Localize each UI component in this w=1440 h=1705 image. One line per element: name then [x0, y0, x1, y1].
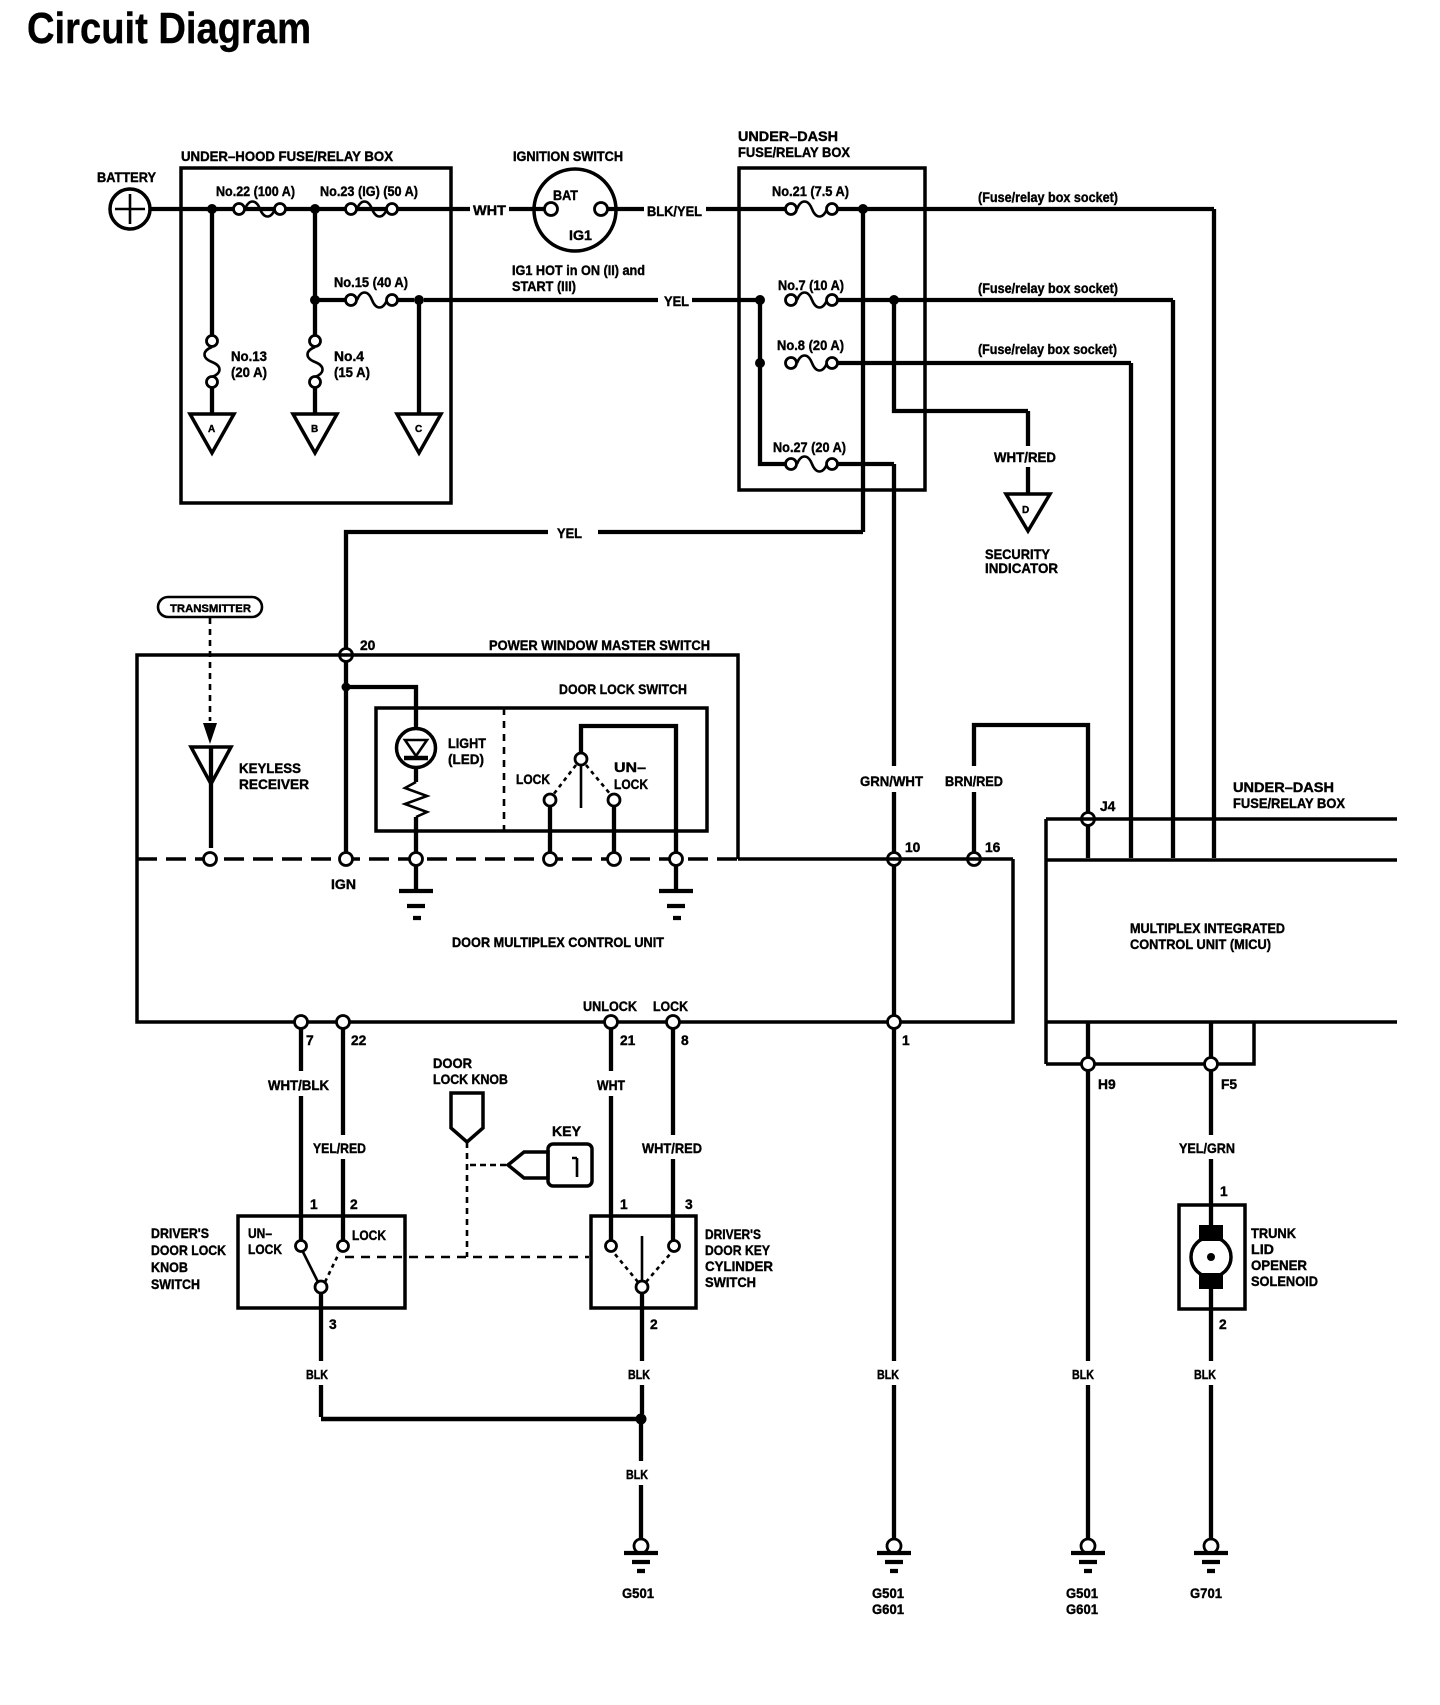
node pin 8 lock: [667, 1016, 680, 1029]
svg-text:BLK: BLK: [306, 1368, 328, 1382]
fuse No.8 (20 A): [755, 338, 844, 371]
knob switch unlock contact: [296, 1241, 307, 1252]
svg-text:J4: J4: [1100, 799, 1116, 814]
ground G501 G601 (pin1 column): [872, 1539, 911, 1617]
fuse No.13 (20 A) wire fuse: [205, 336, 268, 388]
svg-text:KEY: KEY: [552, 1124, 581, 1139]
wire pin 21 down (WHT): [609, 1029, 613, 1216]
svg-text:G501: G501: [622, 1586, 654, 1601]
wire: WHT/RED branch down and right: [894, 300, 1028, 411]
wire knob switch pin 3: [319, 1293, 323, 1308]
svg-text:No.4: No.4: [334, 349, 364, 364]
svg-text:No.13: No.13: [231, 349, 267, 364]
svg-text:DRIVER'S: DRIVER'S: [705, 1227, 761, 1242]
svg-text:BLK: BLK: [1072, 1368, 1094, 1382]
node switch bracket return: [670, 853, 683, 866]
wire: junction B down to fuse No.4: [313, 209, 317, 336]
svg-text:DOOR KEY: DOOR KEY: [705, 1243, 770, 1258]
svg-text:BRN/RED: BRN/RED: [945, 774, 1003, 789]
under-dash fuse/relay box (left): [739, 168, 925, 490]
svg-text:G701: G701: [1190, 1586, 1222, 1601]
svg-text:KEYLESS: KEYLESS: [239, 761, 301, 776]
UN-LOCK contact: [608, 794, 620, 806]
wire: No.7 to No.8 to No.27 left rail: [760, 300, 786, 464]
svg-text:No.15 (40 A): No.15 (40 A): [334, 275, 408, 290]
fuse No.21 (7.5 A): [772, 184, 849, 217]
solid DMCU top segment: [738, 857, 1013, 861]
fuse No.23 (IG) (50 A): [320, 184, 418, 217]
svg-text:GRN/WHT: GRN/WHT: [860, 774, 924, 789]
key cylinder contact 3: [669, 1241, 680, 1252]
wire pin 3 down (BLK): [319, 1308, 323, 1417]
wire battery to under-hood box (main bus): [150, 207, 544, 211]
knob switch arm (closed to unlock): [303, 1252, 318, 1282]
svg-text:SWITCH: SWITCH: [705, 1275, 756, 1290]
wire No.8 output to socket line 3 corner: [838, 361, 1131, 365]
dashed divider in door lock switch: [503, 708, 506, 831]
svg-text:LIGHT: LIGHT: [448, 736, 487, 751]
svg-text:SWITCH: SWITCH: [151, 1277, 200, 1292]
svg-text:DOOR LOCK: DOOR LOCK: [151, 1243, 226, 1258]
svg-text:No.23 (IG) (50 A): No.23 (IG) (50 A): [320, 184, 418, 199]
connector triangle C: [397, 414, 441, 453]
trunk lid opener solenoid: [1179, 1205, 1318, 1309]
svg-text:WHT/RED: WHT/RED: [642, 1141, 702, 1156]
svg-text:No.27 (20 A): No.27 (20 A): [773, 440, 846, 455]
svg-text:KNOB: KNOB: [151, 1260, 188, 1275]
fuse No.22 (100 A): [216, 184, 295, 217]
ground G701: [1190, 1539, 1228, 1601]
svg-text:BAT: BAT: [553, 188, 579, 203]
transmitter pill: [158, 597, 262, 617]
svg-text:10: 10: [905, 840, 921, 855]
svg-text:IGN: IGN: [331, 877, 356, 892]
svg-text:1: 1: [902, 1033, 910, 1048]
svg-text:7: 7: [306, 1033, 314, 1048]
wire: GRN/WHT column from No.27 to pin 10: [892, 464, 896, 853]
svg-text:LID: LID: [1251, 1242, 1274, 1257]
resistor: [405, 782, 427, 817]
svg-text:DRIVER'S: DRIVER'S: [151, 1226, 209, 1241]
svg-text:RECEIVER: RECEIVER: [239, 777, 309, 792]
wire resistor to dashed boundary: [414, 817, 418, 853]
svg-text:BLK: BLK: [626, 1468, 648, 1482]
key cylinder dashed arm to contact 3: [646, 1253, 671, 1282]
wire H9 down (BLK) to ground: [1086, 1070, 1090, 1539]
wire fuse No.13 to triangle A: [210, 388, 214, 414]
wire trunk solenoid down (BLK) to ground: [1209, 1309, 1213, 1539]
wire LOCK contact down: [548, 806, 552, 853]
node: bus junction B: [310, 204, 320, 214]
under-dash fuse/relay box (right) top edge: [1046, 817, 1397, 821]
svg-text:22: 22: [351, 1033, 367, 1048]
lock/unlock switch bracket: [581, 726, 676, 853]
svg-text:WHT/RED: WHT/RED: [994, 450, 1056, 465]
svg-text:Circuit Diagram: Circuit Diagram: [27, 4, 311, 53]
node H9: [1082, 1058, 1095, 1071]
svg-text:DOOR: DOOR: [433, 1056, 472, 1071]
svg-text:A: A: [208, 424, 215, 435]
wire ignition to under-dash box (BLK/YEL): [608, 207, 787, 211]
node: bus junction A: [207, 204, 217, 214]
svg-text:TRANSMITTER: TRANSMITTER: [170, 603, 251, 615]
svg-text:CONTROL UNIT (MICU): CONTROL UNIT (MICU): [1130, 937, 1271, 952]
svg-text:21: 21: [620, 1033, 636, 1048]
svg-text:(LED): (LED): [448, 752, 484, 767]
wire pin 2 into knob switch: [341, 1216, 345, 1240]
ignition switch: [513, 149, 623, 251]
dashed arm to UN-LOCK contact: [586, 765, 611, 795]
svg-text:No.21 (7.5 A): No.21 (7.5 A): [772, 184, 849, 199]
node 20 on power window master switch: [340, 649, 353, 662]
svg-text:WHT/BLK: WHT/BLK: [268, 1078, 329, 1093]
svg-text:DOOR MULTIPLEX CONTROL UNIT: DOOR MULTIPLEX CONTROL UNIT: [452, 935, 665, 950]
battery: [97, 170, 156, 229]
svg-text:UNDER–DASH: UNDER–DASH: [738, 129, 838, 144]
MICU connector bracket: [1046, 1022, 1254, 1064]
svg-text:C: C: [415, 424, 422, 435]
wire F5 down (YEL/GRN): [1209, 1070, 1213, 1205]
wire: YEL row from No.15 to under-dash box: [424, 298, 756, 302]
node LED return: [410, 853, 423, 866]
svg-text:LOCK: LOCK: [653, 999, 688, 1014]
wire: branch to LED: [346, 687, 416, 729]
wire socket line 1 vertical: [1212, 209, 1216, 858]
svg-text:(Fuse/relay box socket): (Fuse/relay box socket): [978, 281, 1118, 296]
connector triangle B: [293, 414, 337, 453]
svg-text:YEL/GRN: YEL/GRN: [1179, 1141, 1235, 1156]
svg-text:BLK: BLK: [1194, 1368, 1216, 1382]
svg-text:YEL: YEL: [664, 294, 689, 309]
wire pin 3 into key cylinder: [671, 1216, 675, 1240]
svg-text:B: B: [311, 424, 318, 435]
svg-text:IG1: IG1: [569, 228, 592, 243]
svg-text:1: 1: [310, 1197, 318, 1212]
svg-text:3: 3: [329, 1317, 337, 1332]
node: WHT/RED branch junction: [889, 295, 899, 305]
svg-text:FUSE/RELAY BOX: FUSE/RELAY BOX: [1233, 796, 1346, 811]
wire BLK link to key cylinder column: [321, 1417, 641, 1422]
svg-text:UNDER–DASH: UNDER–DASH: [1233, 780, 1334, 795]
svg-text:UNLOCK: UNLOCK: [583, 999, 637, 1014]
node 10: [888, 853, 901, 866]
svg-text:LOCK: LOCK: [352, 1228, 386, 1243]
multiplex integrated control unit (MICU) box: [1046, 819, 1397, 1064]
svg-text:BLK: BLK: [877, 1368, 899, 1382]
wire pin 8 down (WHT/RED): [671, 1029, 675, 1216]
svg-text:No.22 (100 A): No.22 (100 A): [216, 184, 295, 199]
node F5: [1205, 1058, 1218, 1071]
svg-text:(Fuse/relay box socket): (Fuse/relay box socket): [978, 342, 1117, 357]
wire pin 7 down (WHT/BLK): [299, 1029, 303, 1216]
svg-text:F5: F5: [1221, 1077, 1237, 1092]
node pin 21 unlock: [605, 1016, 618, 1029]
node: No.15 output junction: [414, 295, 424, 305]
svg-text:YEL: YEL: [557, 526, 582, 541]
switch common contact: [575, 753, 587, 765]
node: No.21 output junction: [858, 204, 868, 214]
svg-text:No.8 (20 A): No.8 (20 A): [777, 338, 844, 353]
svg-text:LOCK: LOCK: [516, 772, 550, 787]
wire pin 1 into key cylinder: [609, 1216, 613, 1240]
node keyless on boundary: [204, 853, 217, 866]
svg-text:IGNITION SWITCH: IGNITION SWITCH: [513, 149, 623, 164]
knob switch common contact: [315, 1281, 327, 1293]
fuse No.27 (20 A): [773, 440, 846, 472]
svg-text:DOOR LOCK SWITCH: DOOR LOCK SWITCH: [559, 682, 687, 697]
svg-text:SOLENOID: SOLENOID: [1251, 1274, 1318, 1289]
dashed boundary PWMS / DMCU: [137, 857, 738, 861]
wire socket line 2 vertical: [1171, 300, 1175, 858]
wire: GRN/WHT inside DMCU from pin 10 to pin 1: [892, 866, 896, 1016]
svg-text:FUSE/RELAY BOX: FUSE/RELAY BOX: [738, 145, 851, 160]
node BLK junction: [636, 1414, 647, 1425]
svg-text:16: 16: [985, 840, 1001, 855]
node pin 22: [337, 1016, 350, 1029]
svg-text:SECURITY: SECURITY: [985, 547, 1050, 562]
svg-text:LOCK: LOCK: [614, 777, 648, 792]
wire: junction A down to fuse No.13: [210, 209, 214, 336]
wire UN-LOCK contact down: [612, 806, 616, 853]
fuse No.15 (40 A): [315, 275, 414, 308]
svg-text:BLK/YEL: BLK/YEL: [647, 204, 702, 219]
svg-text:2: 2: [650, 1317, 658, 1332]
svg-text:2: 2: [350, 1197, 358, 1212]
LOCK contact: [544, 794, 556, 806]
svg-text:8: 8: [681, 1033, 689, 1048]
svg-text:(20 A): (20 A): [231, 365, 267, 380]
svg-text:START (III): START (III): [512, 279, 576, 294]
knob switch arm dashed (lock): [325, 1253, 339, 1282]
svg-text:OPENER: OPENER: [1251, 1258, 1307, 1273]
wire LED to resistor: [414, 767, 418, 782]
key cylinder lever: [641, 1236, 644, 1280]
wire key cylinder pin 2: [640, 1293, 644, 1308]
dashed transmitter signal arrow: [209, 618, 212, 721]
ground below switch bracket: [659, 866, 693, 918]
svg-text:LOCK KNOB: LOCK KNOB: [433, 1072, 508, 1087]
switch lever: [580, 766, 583, 808]
svg-text:1: 1: [620, 1197, 628, 1212]
wire No.7 output to socket line 2 corner: [838, 298, 1173, 302]
connector triangle A: [190, 414, 234, 453]
svg-text:UNDER–HOOD FUSE/RELAY BOX: UNDER–HOOD FUSE/RELAY BOX: [181, 149, 394, 164]
svg-text:G601: G601: [872, 1602, 904, 1617]
node 16: [968, 853, 981, 866]
door multiplex control unit box: [137, 859, 1013, 1022]
wire No.21 output to socket line 1 corner: [838, 207, 1214, 211]
wire F5 stub: [1209, 1022, 1213, 1058]
dashed mechanical linkage: [345, 1256, 589, 1259]
ground G501 (key cylinder column): [622, 1539, 658, 1601]
node J4: [1082, 813, 1095, 826]
svg-text:2: 2: [1219, 1317, 1227, 1332]
LED lamp: [397, 729, 487, 768]
key cylinder common contact: [636, 1281, 648, 1293]
svg-text:YEL/RED: YEL/RED: [313, 1141, 366, 1156]
svg-text:(Fuse/relay box socket): (Fuse/relay box socket): [978, 190, 1118, 205]
node IGN: [340, 853, 353, 866]
svg-text:INDICATOR: INDICATOR: [985, 561, 1058, 576]
node: No.15 branch junction: [310, 295, 320, 305]
key cylinder contact 1: [606, 1241, 617, 1252]
svg-text:IG1 HOT in ON (II) and: IG1 HOT in ON (II) and: [512, 263, 645, 278]
fuse No.7 (10 A): [755, 278, 844, 308]
svg-text:20: 20: [360, 638, 376, 653]
node unlock contact: [608, 853, 621, 866]
svg-text:3: 3: [685, 1197, 693, 1212]
wire: YEL horizontal line: [346, 532, 863, 649]
dashed link knob down: [466, 1142, 469, 1257]
svg-text:LOCK: LOCK: [248, 1242, 282, 1257]
svg-text:(15 A): (15 A): [334, 365, 370, 380]
driver's door lock knob switch box: [238, 1216, 405, 1308]
svg-text:WHT: WHT: [597, 1078, 626, 1093]
wire pin 22 down (YEL/RED): [341, 1029, 345, 1216]
svg-text:BLK: BLK: [628, 1368, 650, 1382]
svg-text:UN–: UN–: [248, 1226, 272, 1241]
svg-text:TRUNK: TRUNK: [1251, 1226, 1296, 1241]
svg-text:BATTERY: BATTERY: [97, 170, 156, 185]
ground below LED: [399, 866, 433, 918]
svg-text:WHT: WHT: [473, 203, 507, 218]
svg-text:D: D: [1022, 505, 1029, 516]
wire: No.21 junction down to YEL line: [861, 209, 865, 532]
svg-text:G501: G501: [1066, 1586, 1098, 1601]
wire: No.15 output down to triangle C: [417, 300, 421, 414]
wire down to security indicator: [1026, 411, 1030, 494]
driver's door key cylinder switch box: [591, 1216, 696, 1308]
node pin 1: [888, 1016, 901, 1029]
svg-text:H9: H9: [1098, 1077, 1116, 1092]
wire pin 1 down (BLK) to ground: [892, 1029, 896, 1539]
wire No.27 output to GRN/WHT column: [838, 462, 894, 466]
wire socket line 3 vertical: [1129, 363, 1133, 858]
security indicator triangle D: [985, 494, 1058, 576]
under-hood fuse/relay box: [181, 168, 451, 503]
wire junction down (BLK) to ground: [639, 1419, 643, 1539]
svg-text:CYLINDER: CYLINDER: [705, 1259, 773, 1274]
node: LED branch junction: [342, 683, 351, 692]
wire pin 2 down (BLK): [640, 1308, 644, 1414]
node pin 7: [295, 1016, 308, 1029]
svg-text:No.7 (10 A): No.7 (10 A): [778, 278, 844, 293]
svg-text:G501: G501: [872, 1586, 904, 1601]
dashed link key to knob rod: [470, 1164, 506, 1167]
wire fuse No.4 to triangle B: [313, 388, 317, 414]
dashed arm to LOCK contact: [553, 765, 576, 795]
wire: pin 20 down to IGN: [344, 661, 348, 853]
fuse No.4 (15 A) wire fuse: [308, 336, 371, 388]
node lock contact: [544, 853, 557, 866]
keyless receiver antenna: [191, 747, 309, 848]
svg-text:UN–: UN–: [614, 760, 646, 775]
wire pin 1 into knob switch: [299, 1216, 303, 1240]
door lock switch box: [376, 708, 707, 831]
svg-text:G601: G601: [1066, 1602, 1098, 1617]
wire: J4 down to MICU top: [1086, 825, 1090, 858]
knob switch lock contact: [338, 1241, 349, 1252]
power window master switch box: [137, 655, 738, 859]
key cylinder dashed arm to contact 1: [614, 1253, 638, 1282]
svg-text:1: 1: [1220, 1184, 1228, 1199]
wire: BRN/RED column: [974, 725, 1088, 853]
wire H9 stub: [1086, 1022, 1090, 1058]
svg-text:POWER WINDOW MASTER SWITCH: POWER WINDOW MASTER SWITCH: [489, 638, 710, 653]
svg-text:MULTIPLEX INTEGRATED: MULTIPLEX INTEGRATED: [1130, 921, 1285, 936]
ground G501 G601 (H9 column): [1066, 1539, 1105, 1617]
